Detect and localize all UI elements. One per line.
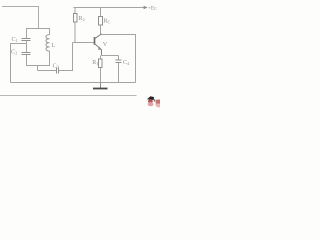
- wire C2 bottom: [26, 55, 28, 66]
- wire C branch top: [26, 28, 28, 39]
- svg-text:C4: C4: [123, 60, 130, 66]
- wire tank top rail: [26, 28, 50, 30]
- capacitor C2: [22, 53, 31, 55]
- svg-text:V: V: [103, 41, 108, 48]
- capacitor C4: [116, 60, 122, 63]
- wire L branch bottom: [49, 51, 51, 66]
- wire R2 top stub: [74, 8, 76, 14]
- wire L branch top: [49, 29, 51, 35]
- wire bottom ground rail: [11, 82, 136, 84]
- svg-text:R2: R2: [79, 16, 85, 22]
- wire tank bottom rail: [26, 65, 50, 67]
- wire Rc top stub: [100, 8, 102, 17]
- capacitor C3: [57, 68, 59, 74]
- transistor V: [95, 34, 102, 56]
- svg-text:C3: C3: [53, 64, 60, 70]
- svg-text:+EC: +EC: [148, 5, 157, 11]
- svg-text:C1: C1: [12, 36, 18, 43]
- wire collector output to right: [101, 35, 136, 83]
- wire feedback tap to ground (left): [11, 44, 27, 83]
- resistor R2: [74, 14, 78, 23]
- resistor R1: [99, 59, 103, 68]
- svg-text:R1: R1: [92, 60, 98, 66]
- wire C3 to base riser: [59, 43, 73, 71]
- arrowhead supply: [144, 6, 148, 9]
- wire Rc bottom to collector node: [100, 25, 102, 35]
- ground: [93, 83, 108, 89]
- wire R2 bottom to base: [74, 22, 76, 43]
- wire R1 bottom: [100, 68, 102, 83]
- svg-text:C2: C2: [11, 48, 17, 55]
- wire top-left supply rail: [2, 7, 39, 29]
- wire emitter to R1: [100, 56, 102, 60]
- capacitor C1: [22, 39, 31, 41]
- wire C1-C2 link: [26, 41, 28, 53]
- wire base: [73, 42, 95, 44]
- wire top supply rail (right): [74, 7, 146, 9]
- wire tank bottom tap down: [37, 66, 39, 71]
- mascot watermark bottom-right: [147, 96, 160, 107]
- resistor Rc: [99, 17, 103, 26]
- inductor L: [46, 35, 50, 51]
- wire to C3: [38, 70, 57, 72]
- wire C4 bottom: [118, 63, 120, 83]
- svg-text:L: L: [52, 43, 56, 49]
- svg-text:RC: RC: [104, 19, 111, 25]
- page rule line: [0, 95, 137, 97]
- wire emitter node to C4: [102, 55, 119, 57]
- wire C4 top stub: [118, 56, 120, 61]
